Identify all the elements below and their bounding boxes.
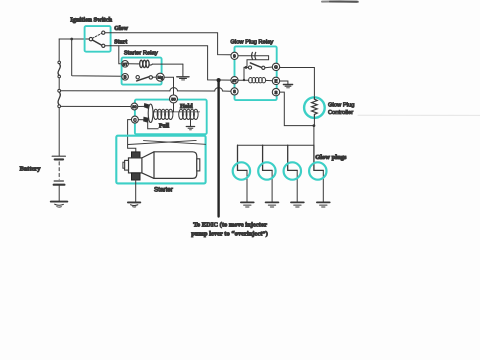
ignition switch common contact bbox=[89, 37, 92, 40]
starter lever line B bbox=[144, 141, 206, 145]
ground starter bbox=[128, 202, 140, 207]
svg-text:Starter Relay: Starter Relay bbox=[124, 50, 158, 56]
label To EDIC bbox=[191, 221, 268, 237]
starter motor end tab bbox=[197, 159, 200, 171]
starter relay box bbox=[122, 58, 162, 85]
svg-text:Start: Start bbox=[114, 40, 127, 46]
wire coil to ground bbox=[182, 64, 184, 77]
glow relay contact right bbox=[262, 66, 265, 69]
starter brush block bottom bbox=[132, 173, 141, 180]
wire S to controller junction bbox=[280, 92, 314, 126]
wire E to ground bbox=[280, 81, 288, 84]
svg-text:B: B bbox=[124, 74, 127, 79]
label Hold bbox=[180, 104, 193, 110]
svg-text:ST: ST bbox=[232, 79, 237, 83]
starter box bbox=[116, 136, 205, 184]
glow plug 3 circle bbox=[284, 162, 301, 179]
glow relay coil bbox=[249, 78, 266, 83]
wire fuse to solenoid 30 bbox=[61, 105, 131, 107]
terminal G bbox=[272, 63, 279, 70]
starter relay contact left bbox=[136, 76, 139, 79]
wire controller to plug bus bbox=[313, 116, 316, 145]
starter brush block top bbox=[132, 152, 141, 159]
wire EDIC bus bbox=[217, 80, 219, 216]
label Glow Plug Controller bbox=[328, 103, 354, 116]
ignition switch glow contact bbox=[102, 31, 105, 34]
glow relay contact left bbox=[248, 66, 251, 69]
terminal C bbox=[131, 116, 138, 123]
terminal S bbox=[272, 88, 279, 95]
ground glow plug 4 bbox=[317, 202, 330, 207]
label Starter bbox=[154, 186, 173, 193]
wire glow plug bus bbox=[238, 144, 314, 146]
terminal E bbox=[272, 77, 279, 84]
svg-text:G: G bbox=[274, 65, 278, 70]
ignition switch glow blade (dashed) bbox=[93, 33, 102, 38]
svg-text:S: S bbox=[275, 90, 278, 95]
glow plug 4 circle bbox=[309, 162, 326, 179]
svg-text:pump lever to “overinject”): pump lever to “overinject”) bbox=[191, 230, 268, 237]
glow plug 1 drop bbox=[238, 145, 248, 202]
glow plug controller resistor bbox=[312, 97, 318, 116]
glow plug 3 drop bbox=[288, 145, 298, 202]
wire branch to starter relay B bbox=[72, 39, 122, 76]
ignition switch start blade bbox=[92, 40, 101, 45]
svg-text:Mg: Mg bbox=[158, 76, 163, 80]
ground solenoid bbox=[186, 127, 194, 130]
wire glow to relay terminal 9 bbox=[105, 33, 231, 55]
terminal ST starter relay bbox=[122, 61, 129, 68]
terminal Mg starter relay bbox=[156, 73, 164, 81]
terminal 50 bbox=[170, 95, 178, 103]
starter lever line A bbox=[128, 140, 196, 144]
label Battery bbox=[20, 166, 42, 173]
svg-text:Starter: Starter bbox=[154, 186, 173, 193]
wire contact to G bbox=[265, 66, 272, 69]
ground battery bbox=[51, 202, 68, 208]
label Glow Plug Relay bbox=[230, 39, 273, 45]
wire hold coil to ground bbox=[190, 119, 192, 126]
svg-text:Glow Plug Relay: Glow Plug Relay bbox=[230, 39, 273, 45]
wire fuse to glow plug relay 8 with hops bbox=[61, 88, 231, 92]
label Glow plugs bbox=[315, 154, 347, 161]
svg-text:Hold: Hold bbox=[180, 104, 193, 110]
svg-text:Controller: Controller bbox=[328, 110, 353, 116]
fusible link F1 bbox=[58, 61, 61, 78]
wire pull coil return bbox=[148, 122, 159, 129]
glow plug 1 circle bbox=[233, 162, 250, 179]
solenoid shaft bbox=[153, 111, 200, 113]
wire battery positive vertical bbox=[58, 39, 60, 156]
wire start branch to starter relay ST bbox=[119, 46, 122, 64]
svg-text:To EDIC (to move injector: To EDIC (to move injector bbox=[193, 221, 267, 228]
wire battery to ignition switch common bbox=[59, 38, 89, 40]
svg-text:E: E bbox=[275, 79, 278, 84]
terminal 9 bbox=[231, 52, 238, 59]
wire Mg to terminal 50 bbox=[164, 77, 173, 95]
starter drive housing bbox=[129, 158, 142, 173]
starter relay coil bbox=[128, 60, 183, 67]
battery bbox=[52, 156, 65, 201]
wire 9 internal bbox=[238, 56, 269, 66]
fusible link F2 bbox=[58, 89, 61, 107]
wire contact to Mg bbox=[153, 76, 156, 78]
hold coil bbox=[179, 109, 198, 119]
starter relay blade bbox=[137, 77, 150, 81]
solenoid plunger bbox=[144, 104, 153, 123]
starter motor body bbox=[154, 152, 197, 179]
glow plug 2 drop bbox=[263, 145, 273, 202]
glow plug controller circle bbox=[304, 97, 325, 118]
wire C to plunger bbox=[138, 119, 144, 121]
svg-text:Battery: Battery bbox=[20, 166, 42, 173]
wire C to starter brush bbox=[128, 120, 136, 152]
svg-text:Glow plugs: Glow plugs bbox=[315, 154, 347, 161]
terminal ST glow relay bbox=[231, 77, 238, 84]
svg-text:Glow: Glow bbox=[114, 26, 128, 32]
wire coil to E bbox=[266, 79, 273, 81]
wire start to glow relay ST bbox=[105, 46, 231, 80]
wire G to controller bbox=[280, 68, 315, 97]
label Ignition Switch bbox=[70, 17, 112, 24]
solenoid box bbox=[135, 100, 207, 135]
label Starter Relay bbox=[124, 50, 158, 56]
starter nose tab bbox=[123, 162, 125, 168]
glow plug relay box bbox=[235, 46, 277, 100]
ground glow relay bbox=[283, 85, 292, 88]
terminal 30 bbox=[131, 103, 138, 110]
ignition switch start contact bbox=[102, 44, 105, 47]
label Start bbox=[114, 40, 127, 46]
wire ST to coil bbox=[238, 79, 249, 81]
capacitor glow relay bbox=[252, 52, 256, 59]
ignition switch box bbox=[85, 26, 111, 52]
svg-text:C: C bbox=[133, 117, 136, 122]
svg-text:Glow Plug: Glow Plug bbox=[328, 103, 354, 109]
scan artifact top line bbox=[322, 1, 480, 115]
svg-text:ST: ST bbox=[123, 62, 128, 66]
ground glow plug 3 bbox=[291, 202, 304, 207]
starter nose rect bbox=[125, 160, 129, 170]
node junction A bbox=[70, 38, 73, 41]
svg-text:Ignition Switch: Ignition Switch bbox=[70, 17, 112, 24]
terminal 8 bbox=[231, 88, 238, 95]
pull coil bbox=[154, 109, 173, 119]
wire 50 into coils bbox=[173, 103, 175, 112]
glow relay blade bbox=[250, 63, 261, 68]
starter relay contact right bbox=[149, 76, 152, 79]
glow plug 4 drop bbox=[314, 145, 323, 202]
ground starter relay bbox=[177, 77, 189, 80]
label Glow bbox=[114, 26, 128, 32]
ground glow plug 2 bbox=[266, 202, 279, 207]
label Pull bbox=[159, 124, 170, 130]
starter motor cone bbox=[142, 152, 154, 179]
terminal B starter relay bbox=[122, 74, 129, 81]
ground glow plug 1 bbox=[241, 202, 254, 207]
svg-text:Pull: Pull bbox=[159, 124, 170, 130]
node bus junction bbox=[217, 78, 221, 82]
wire starter to ground bbox=[135, 180, 137, 202]
glow plug 2 circle bbox=[258, 162, 275, 179]
wire switch junction to coil row bbox=[243, 67, 246, 81]
node relay switch junction bbox=[245, 66, 249, 69]
wire 30 to plunger bbox=[138, 105, 145, 107]
